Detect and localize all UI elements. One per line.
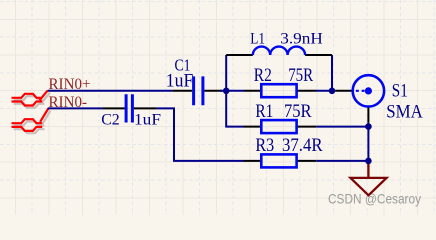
svg-text:75R: 75R	[288, 66, 314, 86]
svg-text:75R: 75R	[284, 102, 312, 122]
wire left vertical to R1	[226, 55, 243, 127]
svg-text:C2: C2	[101, 111, 120, 128]
svg-text:S1: S1	[392, 82, 408, 102]
wire C2 to R3	[156, 108, 243, 160]
inductor L1	[226, 47, 332, 55]
resistor R3	[244, 154, 317, 167]
connector S1	[335, 75, 384, 123]
differential pair directive 2 (shadow)	[14, 111, 51, 134]
junction at R2/S1	[329, 88, 336, 95]
wire C1 to junction	[220, 90, 244, 92]
differential pair directive 1	[12, 90, 48, 105]
differential pair directive 1 (shadow)	[14, 93, 50, 108]
wire S1 down to ground net	[367, 123, 369, 161]
wire right vertical L1 to main	[331, 55, 333, 91]
svg-text:3.9nH: 3.9nH	[280, 30, 323, 47]
junction at C1/L1/R2	[223, 88, 230, 95]
svg-text:SMA: SMA	[386, 102, 423, 122]
junction at R1/S1	[365, 123, 372, 130]
svg-text:37.4R: 37.4R	[282, 136, 323, 156]
resistor R1	[244, 120, 317, 133]
wire R1 to junction	[316, 126, 368, 128]
wire R3 to junction	[316, 160, 368, 162]
svg-text:1uF: 1uF	[166, 71, 194, 91]
ground	[351, 164, 387, 195]
svg-text:R1: R1	[255, 102, 273, 122]
wire RIN0+ to C1	[48, 90, 173, 92]
capacitor C1	[172, 76, 222, 105]
wire RIN0- to C2	[48, 107, 103, 109]
svg-text:L1: L1	[250, 30, 265, 47]
junction at R3/ground	[365, 158, 372, 165]
resistor R2	[244, 84, 316, 97]
svg-text:R2: R2	[254, 66, 272, 86]
differential pair directive 2	[12, 109, 49, 131]
svg-text:1uF: 1uF	[134, 111, 161, 128]
wire R2 to junction	[316, 90, 334, 92]
svg-text:CSDN @Cesaroy: CSDN @Cesaroy	[328, 190, 421, 206]
svg-text:R3: R3	[255, 136, 274, 156]
capacitor C2	[103, 94, 156, 122]
